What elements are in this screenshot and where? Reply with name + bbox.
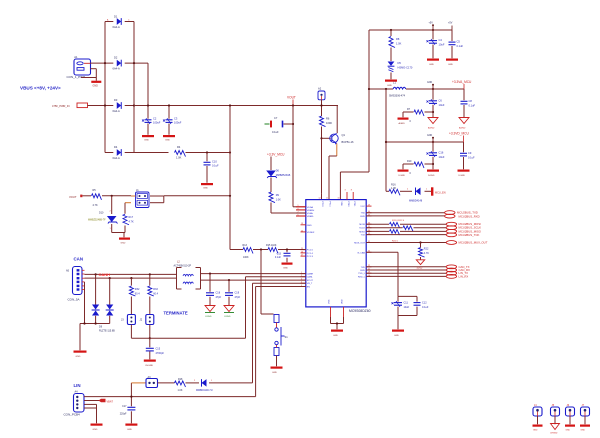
- pin left CANL: [301, 275, 314, 279]
- connector CON_PCB4 LIN: [64, 391, 85, 417]
- svg-text:20: 20: [301, 230, 303, 232]
- svg-text:VBAT: VBAT: [107, 400, 114, 403]
- svg-text:0.1uF: 0.1uF: [212, 164, 219, 168]
- wire R16 to D7: [400, 190, 412, 192]
- ground C5 bar: [446, 59, 458, 66]
- svg-text:AGND: AGND: [459, 127, 466, 130]
- svg-text:GND: GND: [272, 372, 277, 374]
- pin right RXD_L group2: [358, 275, 372, 279]
- svg-text:12: 12: [319, 198, 321, 200]
- wire CAN pin stubs: [82, 270, 85, 289]
- svg-text:R18: R18: [178, 378, 183, 381]
- svg-text:C19: C19: [235, 292, 240, 295]
- pin left VB_T: [301, 282, 313, 286]
- svg-text:4.7K: 4.7K: [93, 204, 98, 207]
- svg-text:1.0K: 1.0K: [276, 198, 281, 201]
- svg-text:AGND: AGND: [399, 122, 406, 125]
- svg-text:CON_PCB4: CON_PCB4: [64, 413, 81, 417]
- wire cap C10 column: [206, 153, 208, 183]
- capacitor C8 0.1uF A: [461, 99, 476, 107]
- resistor R9 1.0K vertical: [269, 192, 281, 203]
- svg-text:MISO: MISO: [359, 231, 365, 233]
- wire diode D4 row: [105, 152, 134, 154]
- junction reset mid: [260, 248, 262, 250]
- svg-text:PTE0: PTE0: [347, 202, 349, 208]
- jumper J3: [121, 315, 135, 325]
- pin left PC1.3: [301, 255, 314, 259]
- svg-text:MMBD4148: MMBD4148: [409, 199, 423, 202]
- wire C16 column: [432, 142, 434, 169]
- svg-text:R10: R10: [407, 160, 412, 163]
- junction TVS2 tap: [109, 277, 111, 279]
- wire SPLIT row to IC: [246, 277, 306, 339]
- wire A2 pin through rail to R6: [321, 100, 323, 117]
- svg-text:47pF: 47pF: [235, 296, 241, 299]
- wire MUX_OUT row: [366, 242, 446, 244]
- svg-text:BCP51-16: BCP51-16: [342, 140, 355, 144]
- capacitor C3 100uF: [163, 117, 182, 125]
- svg-text:C17: C17: [122, 405, 127, 408]
- svg-text:100K: 100K: [326, 121, 332, 125]
- pin left CANH: [301, 272, 314, 276]
- junction x230 rail: [229, 104, 231, 106]
- svg-text:CGND: CGND: [205, 316, 212, 318]
- svg-text:GND: GND: [203, 188, 208, 190]
- wire reset row from x230: [230, 249, 243, 251]
- junction A2 on rail: [320, 104, 322, 106]
- label zero ohm resistors: [392, 220, 405, 222]
- svg-text:C2: C2: [153, 117, 157, 121]
- power flag +3.3VA_MCU: [452, 80, 472, 89]
- svg-text:47pF: 47pF: [216, 296, 222, 299]
- svg-text:11: 11: [326, 198, 328, 200]
- junction TVS gnd join2: [95, 322, 97, 324]
- wire R8 to LED D5: [390, 48, 392, 62]
- ground C2 bar: [142, 135, 154, 142]
- svg-text:60.4: 60.4: [153, 292, 158, 295]
- wire L1 output row: [406, 88, 464, 90]
- svg-text:VREFL: VREFL: [307, 216, 315, 218]
- svg-text:R17: R17: [129, 216, 134, 219]
- wire VB_T row to IC: [253, 283, 306, 383]
- wire choke out CANH to IC: [201, 273, 306, 275]
- wire +3.3VD rail horizontal: [386, 141, 464, 143]
- port oval MCU2BUS_TCK: [446, 233, 479, 237]
- svg-text:D5: D5: [398, 61, 402, 65]
- capacitor C6 10uF: [427, 99, 445, 107]
- svg-text:LIN_RX: LIN_RX: [459, 274, 469, 278]
- wire reset to switch: [261, 250, 274, 315]
- svg-text:8: 8: [298, 208, 299, 210]
- wire C13 column: [286, 250, 288, 263]
- power flag +5V left: [429, 22, 435, 31]
- ground DGND bar C16: [427, 170, 439, 177]
- wire jumper A3 left lead: [131, 382, 146, 384]
- junction C2 column on rail: [147, 104, 149, 106]
- svg-text:A1: A1: [74, 55, 78, 59]
- wire Q1 collector to IC pin: [329, 144, 337, 200]
- svg-text:DGND: DGND: [428, 175, 435, 177]
- svg-text:S1: S1: [285, 335, 289, 339]
- svg-text:R8: R8: [396, 37, 400, 41]
- pin right SCLK: [359, 226, 371, 230]
- svg-text:GND: GND: [427, 135, 432, 137]
- wire TVS2 column: [109, 278, 111, 323]
- wire A3 to R18: [158, 382, 175, 384]
- wire R4 to x230: [186, 152, 231, 154]
- resistor R10 0 ohm DGND bridge: [403, 160, 433, 175]
- junction x386 3.3VD: [385, 141, 387, 143]
- svg-text:Q1: Q1: [342, 133, 346, 137]
- svg-text:D10: D10: [99, 212, 104, 215]
- svg-text:10uF: 10uF: [404, 306, 410, 309]
- wire terminate bottom h338: [131, 337, 245, 339]
- capacitor C5 0.1uF: [449, 40, 464, 48]
- wire LIN_TX row: [366, 272, 446, 274]
- pin left VDDEX: [301, 230, 315, 234]
- header J1 2x2: [131, 189, 149, 208]
- pin left VREFH: [296, 208, 315, 212]
- svg-text:GND: GND: [76, 356, 81, 358]
- svg-text:C5: C5: [457, 40, 461, 44]
- svg-text:MCU2BUS_TCK: MCU2BUS_TCK: [459, 233, 480, 237]
- svg-text:+5V: +5V: [429, 22, 434, 25]
- svg-text:D3: D3: [114, 98, 118, 102]
- resistor R4 1.0K: [175, 145, 186, 160]
- label D9 RLZTE: [99, 325, 115, 332]
- svg-text:CANL: CANL: [307, 276, 314, 279]
- resistor R16 1.0K: [389, 184, 400, 196]
- svg-text:MMBZ5231B: MMBZ5231B: [276, 174, 291, 177]
- port oval MCU2BUS_MOSI: [446, 222, 481, 226]
- svg-text:100uF: 100uF: [153, 121, 161, 125]
- wire zener rail +3.3V_MCU: [267, 153, 306, 214]
- pin right TXD: [361, 211, 372, 215]
- svg-text:0.1uF: 0.1uF: [275, 256, 282, 259]
- svg-text:1.0K: 1.0K: [391, 187, 396, 190]
- svg-text:R13: R13: [243, 244, 248, 247]
- svg-text:4700pF: 4700pF: [156, 352, 165, 355]
- svg-text:A2: A2: [318, 87, 322, 91]
- junction x386 on L1 row: [385, 88, 387, 90]
- junction R22 tap: [419, 241, 421, 243]
- svg-text:27: 27: [301, 255, 303, 257]
- pin right RXD group2: [360, 268, 371, 272]
- wire CAN_TX row: [366, 266, 446, 268]
- svg-text:100uF: 100uF: [174, 121, 182, 125]
- svg-text:SCLK: SCLK: [359, 228, 365, 230]
- pin right TXD_L group2: [358, 272, 371, 276]
- capacitor C16 10uF: [427, 151, 445, 159]
- port oval MCU2BUS_MISO: [446, 229, 482, 233]
- ground C3 bar: [163, 135, 175, 142]
- svg-text:6A4-A: 6A4-A: [113, 66, 120, 70]
- wire +5V rail horizontal: [369, 29, 452, 31]
- wire choke out CANL to IC: [201, 279, 306, 281]
- svg-text:GND: GND: [93, 85, 99, 88]
- svg-text:VDD: VDD: [342, 299, 344, 304]
- net flag on C16 column: [427, 135, 434, 142]
- svg-text:HSMG-C170: HSMG-C170: [398, 65, 413, 69]
- svg-text:GND: GND: [387, 85, 392, 87]
- ground connector GND bar: [91, 81, 101, 88]
- svg-text:GND: GND: [127, 429, 132, 431]
- junction VOUT rail x293: [292, 104, 294, 106]
- junction h338 R33: [149, 337, 151, 339]
- junction C3 column on rail: [168, 104, 170, 106]
- svg-text:10uF: 10uF: [439, 42, 445, 46]
- net highlight CANH: [99, 272, 111, 277]
- pin right MUX_OUT: [354, 241, 371, 245]
- net flag VOUT left: [69, 195, 82, 199]
- svg-text:RXD_L: RXD_L: [358, 276, 366, 278]
- svg-text:VCC: VCC: [360, 206, 365, 208]
- capacitor C19 47pF: [225, 292, 241, 299]
- svg-text:C15: C15: [156, 348, 161, 351]
- wire TXD row: [366, 212, 444, 214]
- resistor R18 1.0K: [175, 378, 186, 392]
- connector CON_5A CAN: [66, 267, 82, 302]
- ground D5 bar: [385, 80, 397, 87]
- svg-text:D2: D2: [114, 56, 118, 60]
- svg-text:DGND: DGND: [459, 175, 466, 177]
- wire D7 to port: [425, 190, 432, 192]
- svg-text:MMBZ5248B-7F: MMBZ5248B-7F: [88, 219, 106, 222]
- wire diode D1 row: [105, 21, 134, 23]
- wire vertical bus right of bridge: [133, 22, 135, 153]
- svg-text:R4: R4: [177, 145, 181, 149]
- svg-text:MOSI: MOSI: [359, 224, 365, 226]
- resistor R33 60.4 vertical: [148, 286, 159, 296]
- pin bottom VDD: [342, 299, 344, 317]
- pin stub top 3: [345, 190, 348, 200]
- svg-text:GND: GND: [429, 64, 434, 66]
- svg-text:29: 29: [368, 205, 370, 207]
- pin right MOSI: [359, 223, 371, 227]
- svg-text:0.1uF: 0.1uF: [468, 155, 475, 159]
- svg-text:C6: C6: [439, 99, 443, 103]
- switch S1 contacts: [275, 327, 288, 346]
- junction C10 tap: [206, 151, 208, 153]
- svg-text:CANH: CANH: [99, 272, 111, 277]
- svg-text:4.7K: 4.7K: [129, 220, 134, 223]
- junction x230 header row: [229, 195, 231, 197]
- svg-text:GND: GND: [121, 242, 126, 244]
- wire C11 column: [397, 296, 399, 315]
- svg-text:SPLIT: SPLIT: [307, 280, 314, 282]
- svg-text:+3.3V_MCU: +3.3V_MCU: [267, 153, 285, 157]
- svg-text:VSSA: VSSA: [307, 212, 313, 215]
- svg-text:VOUT: VOUT: [287, 96, 296, 100]
- test point J6: [565, 404, 575, 432]
- svg-text:GND: GND: [283, 267, 288, 269]
- resistor R5 4.7K: [92, 189, 102, 207]
- diode SD05 triangle: [416, 260, 424, 270]
- wire R33 column: [149, 274, 151, 314]
- junction C13 tap: [286, 248, 288, 250]
- junction R32 tap: [130, 277, 132, 279]
- wire C17 column: [130, 383, 132, 423]
- resistor R22 4.7K vertical: [419, 243, 430, 258]
- svg-text:PTE1: PTE1: [353, 202, 355, 208]
- svg-text:LIN: LIN: [74, 383, 81, 388]
- svg-text:GND: GND: [448, 64, 453, 66]
- svg-text:0.1uF: 0.1uF: [422, 306, 429, 309]
- port BUS_EN bar: [431, 187, 446, 195]
- wire LIN pin1 long row: [84, 396, 256, 398]
- svg-text:C18: C18: [216, 292, 221, 295]
- wire vertical bus left of bridge: [104, 22, 106, 153]
- wire vertical x293 VOUT to IC pin: [293, 106, 306, 207]
- svg-text:D1: D1: [114, 15, 118, 19]
- svg-text:6A4-A: 6A4-A: [113, 109, 120, 113]
- net label LIN: [74, 383, 81, 388]
- svg-text:C16: C16: [439, 151, 444, 155]
- svg-text:6: 6: [298, 214, 299, 216]
- svg-text:6A4-A: 6A4-A: [113, 156, 120, 160]
- capacitor C7 0.1uF horizontal: [265, 116, 294, 134]
- resistor R13 100K: [243, 244, 254, 259]
- wire +5V vertical to IC: [340, 30, 369, 200]
- pin left PC1.5: [301, 248, 314, 252]
- svg-text:VDDA: VDDA: [307, 206, 314, 209]
- svg-text:PTC1: PTC1: [328, 202, 330, 208]
- svg-text:AGND: AGND: [428, 127, 435, 130]
- capacitor C17 220pF: [120, 405, 136, 415]
- svg-text:+3.3VA_MCU: +3.3VA_MCU: [452, 80, 472, 84]
- ground caps bar: [392, 330, 404, 337]
- svg-text:CON_5A: CON_5A: [68, 298, 80, 302]
- svg-text:220pF: 220pF: [120, 412, 127, 415]
- ground S1 bar: [271, 367, 283, 374]
- ground LIN pins bar: [91, 424, 103, 431]
- svg-text:VBUS <+8V, +24V>: VBUS <+8V, +24V>: [20, 86, 61, 91]
- ground DGND bar for R10: [398, 170, 409, 177]
- wire LIN pins34 to gnd: [84, 404, 97, 423]
- power flag VOUT on rail: [287, 96, 296, 106]
- svg-text:C3: C3: [174, 117, 178, 121]
- capacitor C18 47pF: [206, 292, 222, 299]
- junction +5V feed to L1: [368, 88, 370, 90]
- capacitor C13 0.1uF: [275, 253, 291, 260]
- pin left VSSA: [296, 211, 313, 215]
- svg-text:MCU2BUS_RXD: MCU2BUS_RXD: [459, 214, 480, 218]
- ground C4 bar: [427, 59, 439, 66]
- svg-text:PC1.3: PC1.3: [307, 256, 314, 258]
- wire L1 input row: [369, 88, 393, 90]
- wire C18 column: [209, 274, 211, 306]
- wire CAN_RX row: [366, 269, 446, 271]
- jumper A3: [146, 376, 158, 388]
- junction C19 tap: [228, 279, 230, 281]
- wire caps bottoms join: [398, 316, 417, 330]
- resistor R6 100K: [320, 116, 333, 127]
- junction D3 anode x105: [104, 104, 106, 106]
- pin right N_CAN: [358, 251, 372, 255]
- wire CANH rail: [85, 273, 177, 275]
- svg-text:10uF: 10uF: [439, 155, 445, 159]
- junction TVS1 tap: [95, 273, 97, 275]
- label R22 0 on MUX row: [392, 241, 399, 243]
- pin right TXD group2: [361, 265, 372, 269]
- svg-text:VDDEX: VDDEX: [307, 232, 315, 234]
- pin right RXD: [360, 214, 371, 218]
- resistor R7 0 ohm AGND bridge: [403, 108, 433, 123]
- wire zener R17 to ground: [123, 233, 125, 238]
- wire CANL rail: [85, 277, 177, 279]
- svg-text:475F_PWR_IN: 475F_PWR_IN: [52, 104, 70, 108]
- svg-text:SD05: SD05: [417, 267, 423, 269]
- wire TCK row: [366, 234, 446, 236]
- wire D3 cathode to rail: [125, 105, 134, 107]
- svg-text:26: 26: [301, 251, 303, 253]
- capacitor C2 100uF: [142, 117, 161, 125]
- svg-text:GND: GND: [533, 429, 538, 431]
- connector CON_1_PWR: [67, 55, 91, 79]
- pin left SPLIT: [301, 279, 314, 283]
- diode D4 6A4: [113, 145, 122, 160]
- svg-text:MUX_OUT: MUX_OUT: [354, 243, 365, 245]
- pin number top wires: [319, 198, 340, 200]
- svg-text:C7: C7: [274, 116, 278, 120]
- svg-text:N_CAN: N_CAN: [358, 251, 366, 254]
- inductor L1 SMS3306-474: [389, 81, 406, 98]
- svg-text:C10: C10: [212, 160, 217, 164]
- ground DGND bar C9: [458, 170, 470, 177]
- svg-text:TXD_L: TXD_L: [358, 273, 366, 275]
- junction zener tap: [111, 195, 113, 197]
- junction TVS gnd join: [83, 322, 85, 324]
- wire J3 to h338: [130, 325, 132, 339]
- wire MOSI row: [366, 223, 446, 225]
- pin left EN: [301, 285, 311, 289]
- svg-text:1.0K: 1.0K: [176, 156, 182, 160]
- wire R16 row start: [386, 190, 389, 192]
- diode D2 6A4: [113, 56, 122, 71]
- svg-text:MCU_EN: MCU_EN: [435, 191, 446, 194]
- port oval MCU2BUS_SCLK: [446, 226, 481, 230]
- junction R33 tap: [149, 273, 151, 275]
- svg-text:CHGND: CHGND: [145, 365, 153, 367]
- svg-text:GND: GND: [165, 140, 170, 142]
- wire header pin2 to R17: [125, 203, 131, 233]
- svg-text:0.1uF: 0.1uF: [272, 130, 279, 134]
- wire R18 to D8: [186, 382, 200, 384]
- wire C12 column: [416, 296, 418, 315]
- svg-text:4.7K: 4.7K: [424, 252, 429, 255]
- wire x386 vertical: [385, 89, 387, 191]
- svg-text:C12: C12: [422, 302, 427, 305]
- port oval CAN_RX: [446, 268, 470, 272]
- svg-text:MC9S08DZ60: MC9S08DZ60: [349, 309, 371, 313]
- svg-text:PC1.5: PC1.5: [307, 250, 314, 252]
- wire R22 to diode: [420, 257, 422, 260]
- diode D7 MMBD4148: [407, 188, 428, 203]
- junction C7 on x293: [292, 123, 294, 125]
- wire TVS bottoms join: [80, 324, 110, 351]
- resistor R14 on MISO: [390, 230, 400, 235]
- ground zener bar: [119, 238, 130, 245]
- junction C18 tap: [209, 273, 211, 275]
- junction IC ground U: [336, 322, 338, 324]
- svg-text:13: 13: [301, 223, 303, 225]
- junction R10 on C16 column: [432, 163, 434, 165]
- test point J5: [550, 404, 560, 435]
- junction R8 top: [390, 29, 392, 31]
- svg-text:0.1uF: 0.1uF: [457, 44, 464, 48]
- op-amp U1 MCU MC9S08DZ60 body: [306, 200, 371, 313]
- junction C6 top: [432, 88, 434, 90]
